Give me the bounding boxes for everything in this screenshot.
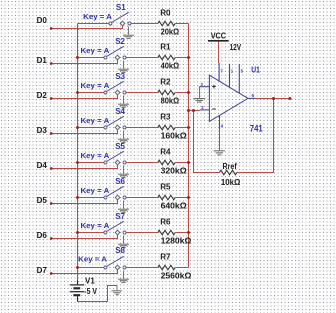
svg-text:S2: S2	[115, 37, 125, 46]
svg-text:80kΩ: 80kΩ	[161, 97, 180, 106]
svg-text:Key = A: Key = A	[81, 116, 110, 125]
svg-text:U1: U1	[251, 64, 260, 74]
svg-text:12V: 12V	[230, 43, 242, 52]
svg-text:Rref: Rref	[223, 162, 237, 171]
svg-text:R1: R1	[160, 43, 171, 52]
svg-text:R5: R5	[160, 183, 171, 192]
svg-text:40kΩ: 40kΩ	[161, 62, 180, 71]
svg-text:D4: D4	[37, 161, 48, 170]
svg-text:S7: S7	[115, 212, 125, 221]
svg-text:S1: S1	[116, 3, 126, 12]
svg-text:741: 741	[250, 124, 263, 134]
svg-text:R6: R6	[160, 218, 171, 227]
svg-text:V1: V1	[85, 276, 95, 285]
svg-text:D5: D5	[37, 196, 48, 205]
svg-text:D0: D0	[37, 16, 48, 25]
svg-text:-5 V: -5 V	[84, 287, 97, 296]
svg-text:D7: D7	[37, 266, 48, 275]
svg-text:2560kΩ: 2560kΩ	[161, 272, 192, 281]
svg-text:Key = A: Key = A	[81, 151, 110, 160]
svg-text:Key = A: Key = A	[81, 81, 110, 90]
svg-text:S6: S6	[115, 177, 125, 186]
svg-text:Key = A: Key = A	[81, 46, 110, 55]
svg-text:R0: R0	[160, 9, 171, 18]
svg-text:10kΩ: 10kΩ	[221, 178, 241, 187]
svg-text:R4: R4	[160, 148, 171, 157]
svg-text:Key = A: Key = A	[78, 254, 107, 263]
svg-text:D3: D3	[37, 126, 48, 135]
svg-text:S5: S5	[115, 142, 125, 151]
svg-text:R3: R3	[160, 113, 171, 122]
svg-text:160kΩ: 160kΩ	[161, 132, 188, 141]
svg-text:D6: D6	[37, 231, 48, 240]
svg-text:640kΩ: 640kΩ	[161, 202, 188, 211]
svg-text:Key = A: Key = A	[81, 186, 110, 195]
svg-text:R7: R7	[160, 253, 171, 262]
svg-text:S3: S3	[115, 72, 125, 81]
svg-text:R2: R2	[160, 78, 171, 87]
svg-text:1280kΩ: 1280kΩ	[161, 237, 192, 246]
svg-text:D2: D2	[37, 91, 48, 100]
svg-text:S4: S4	[115, 107, 125, 116]
svg-text:Key = A: Key = A	[83, 12, 112, 21]
svg-text:320kΩ: 320kΩ	[161, 167, 188, 176]
svg-text:VCC: VCC	[211, 31, 227, 40]
svg-text:S8: S8	[115, 246, 125, 255]
svg-text:20kΩ: 20kΩ	[161, 28, 180, 37]
svg-text:D1: D1	[37, 56, 48, 65]
svg-text:Key = A: Key = A	[81, 221, 110, 230]
